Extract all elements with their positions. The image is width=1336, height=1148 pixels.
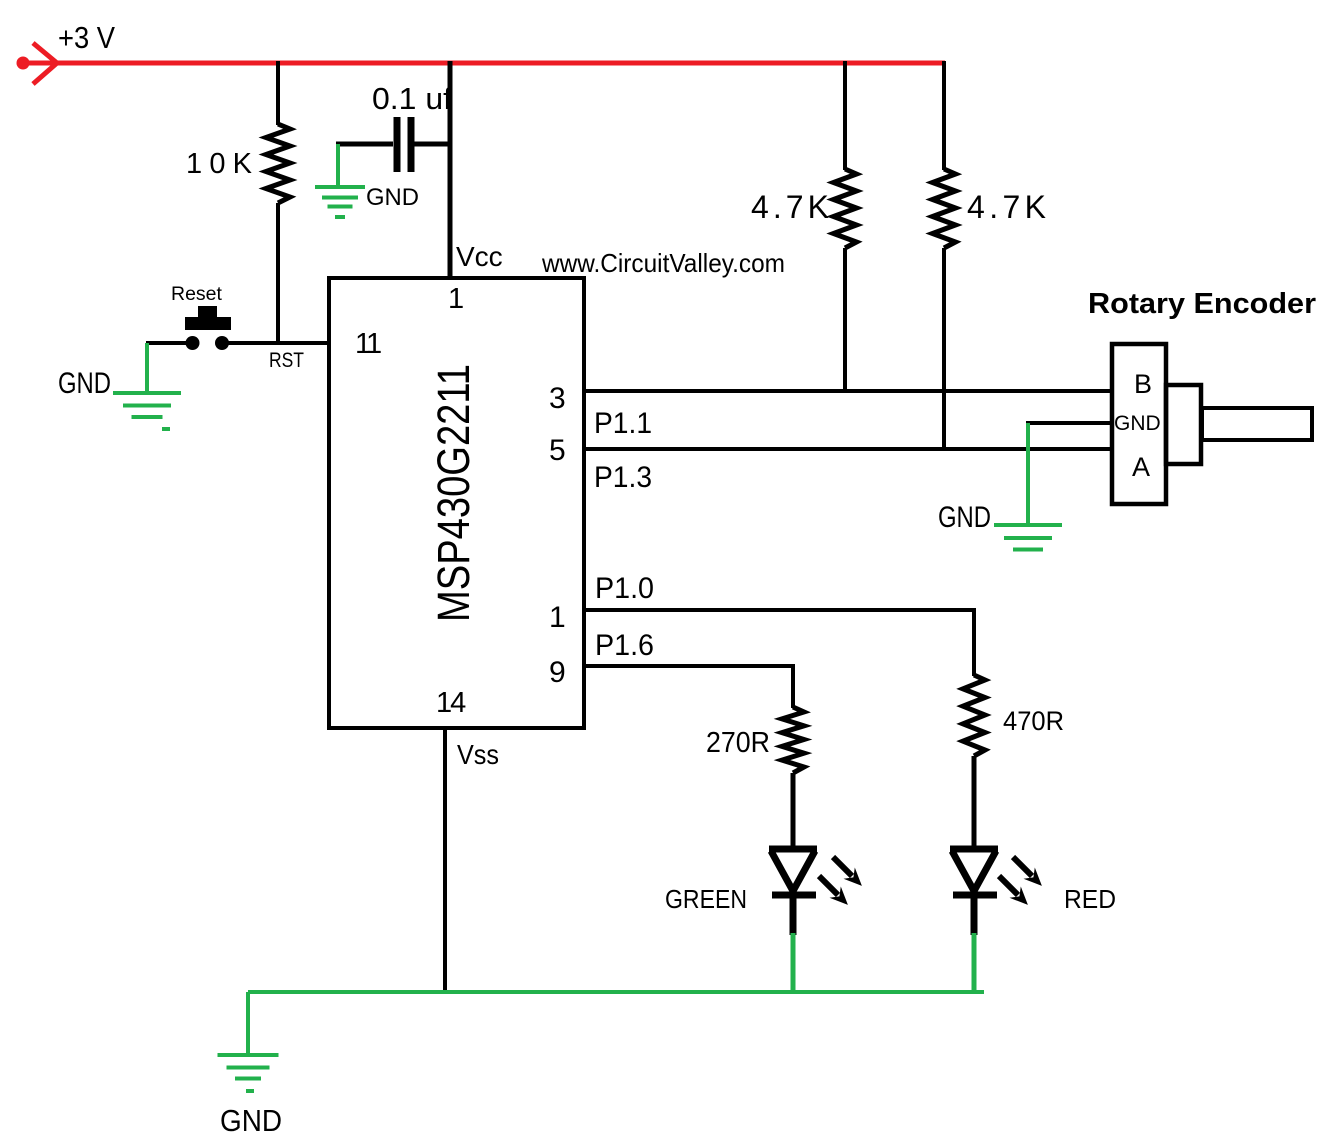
ground symbol at encoder	[994, 523, 1062, 527]
+3V arrow terminal	[33, 43, 57, 84]
svg-text:270R: 270R	[706, 727, 770, 759]
wire: button to RST pin 11	[227, 341, 329, 345]
wire: pin 5 (P1.3) to encoder A	[584, 447, 1114, 451]
op-amp / IC U1 MSP430G2211 body	[329, 278, 584, 728]
wire: green LED cathode to bus	[791, 933, 796, 993]
wire: pin 3 (P1.1) to encoder B	[584, 389, 1114, 393]
+3V power rail wire	[23, 61, 945, 66]
rotary encoder shaft	[1202, 408, 1312, 440]
svg-text:10K: 10K	[186, 148, 253, 180]
+3V terminal dot	[17, 57, 30, 70]
resistor 270R	[782, 707, 804, 773]
resistor 4.7K (left)	[834, 169, 857, 248]
wire: rail to Vcc pin 1	[448, 61, 453, 278]
svg-text:A: A	[1132, 452, 1150, 482]
svg-text:1: 1	[448, 283, 464, 315]
svg-text:P1.3: P1.3	[594, 461, 652, 494]
svg-text:3: 3	[549, 382, 566, 415]
rotary encoder bushing	[1166, 385, 1201, 464]
svg-text:Rotary Encoder: Rotary Encoder	[1088, 288, 1316, 320]
wire: green drop to encoder ground	[1026, 423, 1030, 526]
resistor 4.7K (right)	[933, 169, 956, 248]
svg-text:Vss: Vss	[457, 739, 499, 770]
push button SW1 body	[198, 306, 217, 318]
svg-text:P1.1: P1.1	[594, 407, 652, 440]
wire: pin 14 Vss down	[443, 728, 447, 993]
wire: bus down to main ground	[246, 992, 250, 1056]
svg-text:GREEN: GREEN	[665, 884, 747, 914]
wire: button to ground	[146, 341, 187, 345]
svg-text:MSP430G2211: MSP430G2211	[428, 364, 479, 622]
wire: 4.7K resistor 1 to P1.1 net	[843, 248, 847, 393]
svg-text:+3 V: +3 V	[58, 20, 115, 55]
svg-text:GND: GND	[366, 184, 419, 211]
wire: pin 9 (P1.6) horizontal	[584, 664, 795, 668]
LED D2 RED	[950, 846, 998, 853]
wire: green drop to reset ground	[145, 343, 149, 394]
svg-text:4.7K: 4.7K	[751, 189, 829, 225]
svg-text:9: 9	[549, 656, 566, 689]
svg-text:Reset: Reset	[171, 283, 223, 305]
svg-text:RED: RED	[1064, 884, 1116, 914]
svg-text:www.CircuitValley.com: www.CircuitValley.com	[541, 248, 785, 278]
svg-text:GND: GND	[1114, 412, 1161, 435]
LED D2 emission arrows	[1013, 857, 1032, 876]
wire: encoder GND pin	[1026, 421, 1114, 425]
rotary encoder body	[1112, 344, 1166, 504]
LED D1 emission arrows	[833, 857, 852, 876]
wire: red LED cathode to bus	[972, 933, 977, 993]
wire: rail to 4.7K resistor 2	[942, 61, 946, 170]
svg-text:470R: 470R	[1003, 706, 1064, 736]
svg-text:4.7K: 4.7K	[967, 189, 1046, 225]
wire: 470R to red LED anode	[972, 756, 977, 849]
svg-text:0.1 uf: 0.1 uf	[372, 81, 452, 116]
wire: 4.7K resistor 2 to P1.3 net	[942, 248, 946, 451]
svg-text:GND: GND	[58, 367, 111, 400]
ground bus wire (green)	[248, 990, 984, 994]
push button contact dots	[186, 336, 200, 350]
ground symbol at reset button	[113, 391, 181, 395]
svg-text:14: 14	[436, 687, 466, 719]
wire: capacitor left lead	[336, 142, 393, 147]
wire: 10K resistor to RST node	[276, 203, 280, 345]
svg-text:GND: GND	[938, 501, 991, 534]
wire: pin 1 (P1.0) horizontal	[584, 608, 976, 612]
wire: P1.0 down to 470R	[972, 608, 976, 676]
wire: 270R to green LED anode	[791, 773, 796, 849]
wire: rail to 4.7K resistor 1	[843, 61, 847, 170]
svg-text:RST: RST	[269, 349, 304, 372]
wire: rail to 10K resistor	[276, 61, 280, 125]
svg-text:11: 11	[355, 328, 381, 360]
svg-text:P1.6: P1.6	[595, 629, 654, 662]
resistor 10K	[266, 124, 290, 203]
ground symbol at capacitor	[315, 185, 365, 189]
ground symbol main	[218, 1053, 279, 1057]
svg-text:5: 5	[549, 434, 566, 467]
svg-text:B: B	[1134, 369, 1152, 399]
wire: capacitor to ground (green)	[336, 144, 340, 187]
svg-text:1: 1	[549, 601, 566, 634]
svg-text:GND: GND	[220, 1103, 282, 1138]
capacitor 0.1uf plates	[394, 117, 401, 172]
wire: capacitor right lead to Vcc line	[414, 142, 452, 147]
LED D1 GREEN	[769, 846, 817, 853]
resistor 470R	[963, 675, 985, 756]
svg-text:Vcc: Vcc	[456, 241, 503, 272]
svg-text:P1.0: P1.0	[595, 572, 654, 605]
wire: P1.6 down to 270R	[791, 664, 795, 708]
